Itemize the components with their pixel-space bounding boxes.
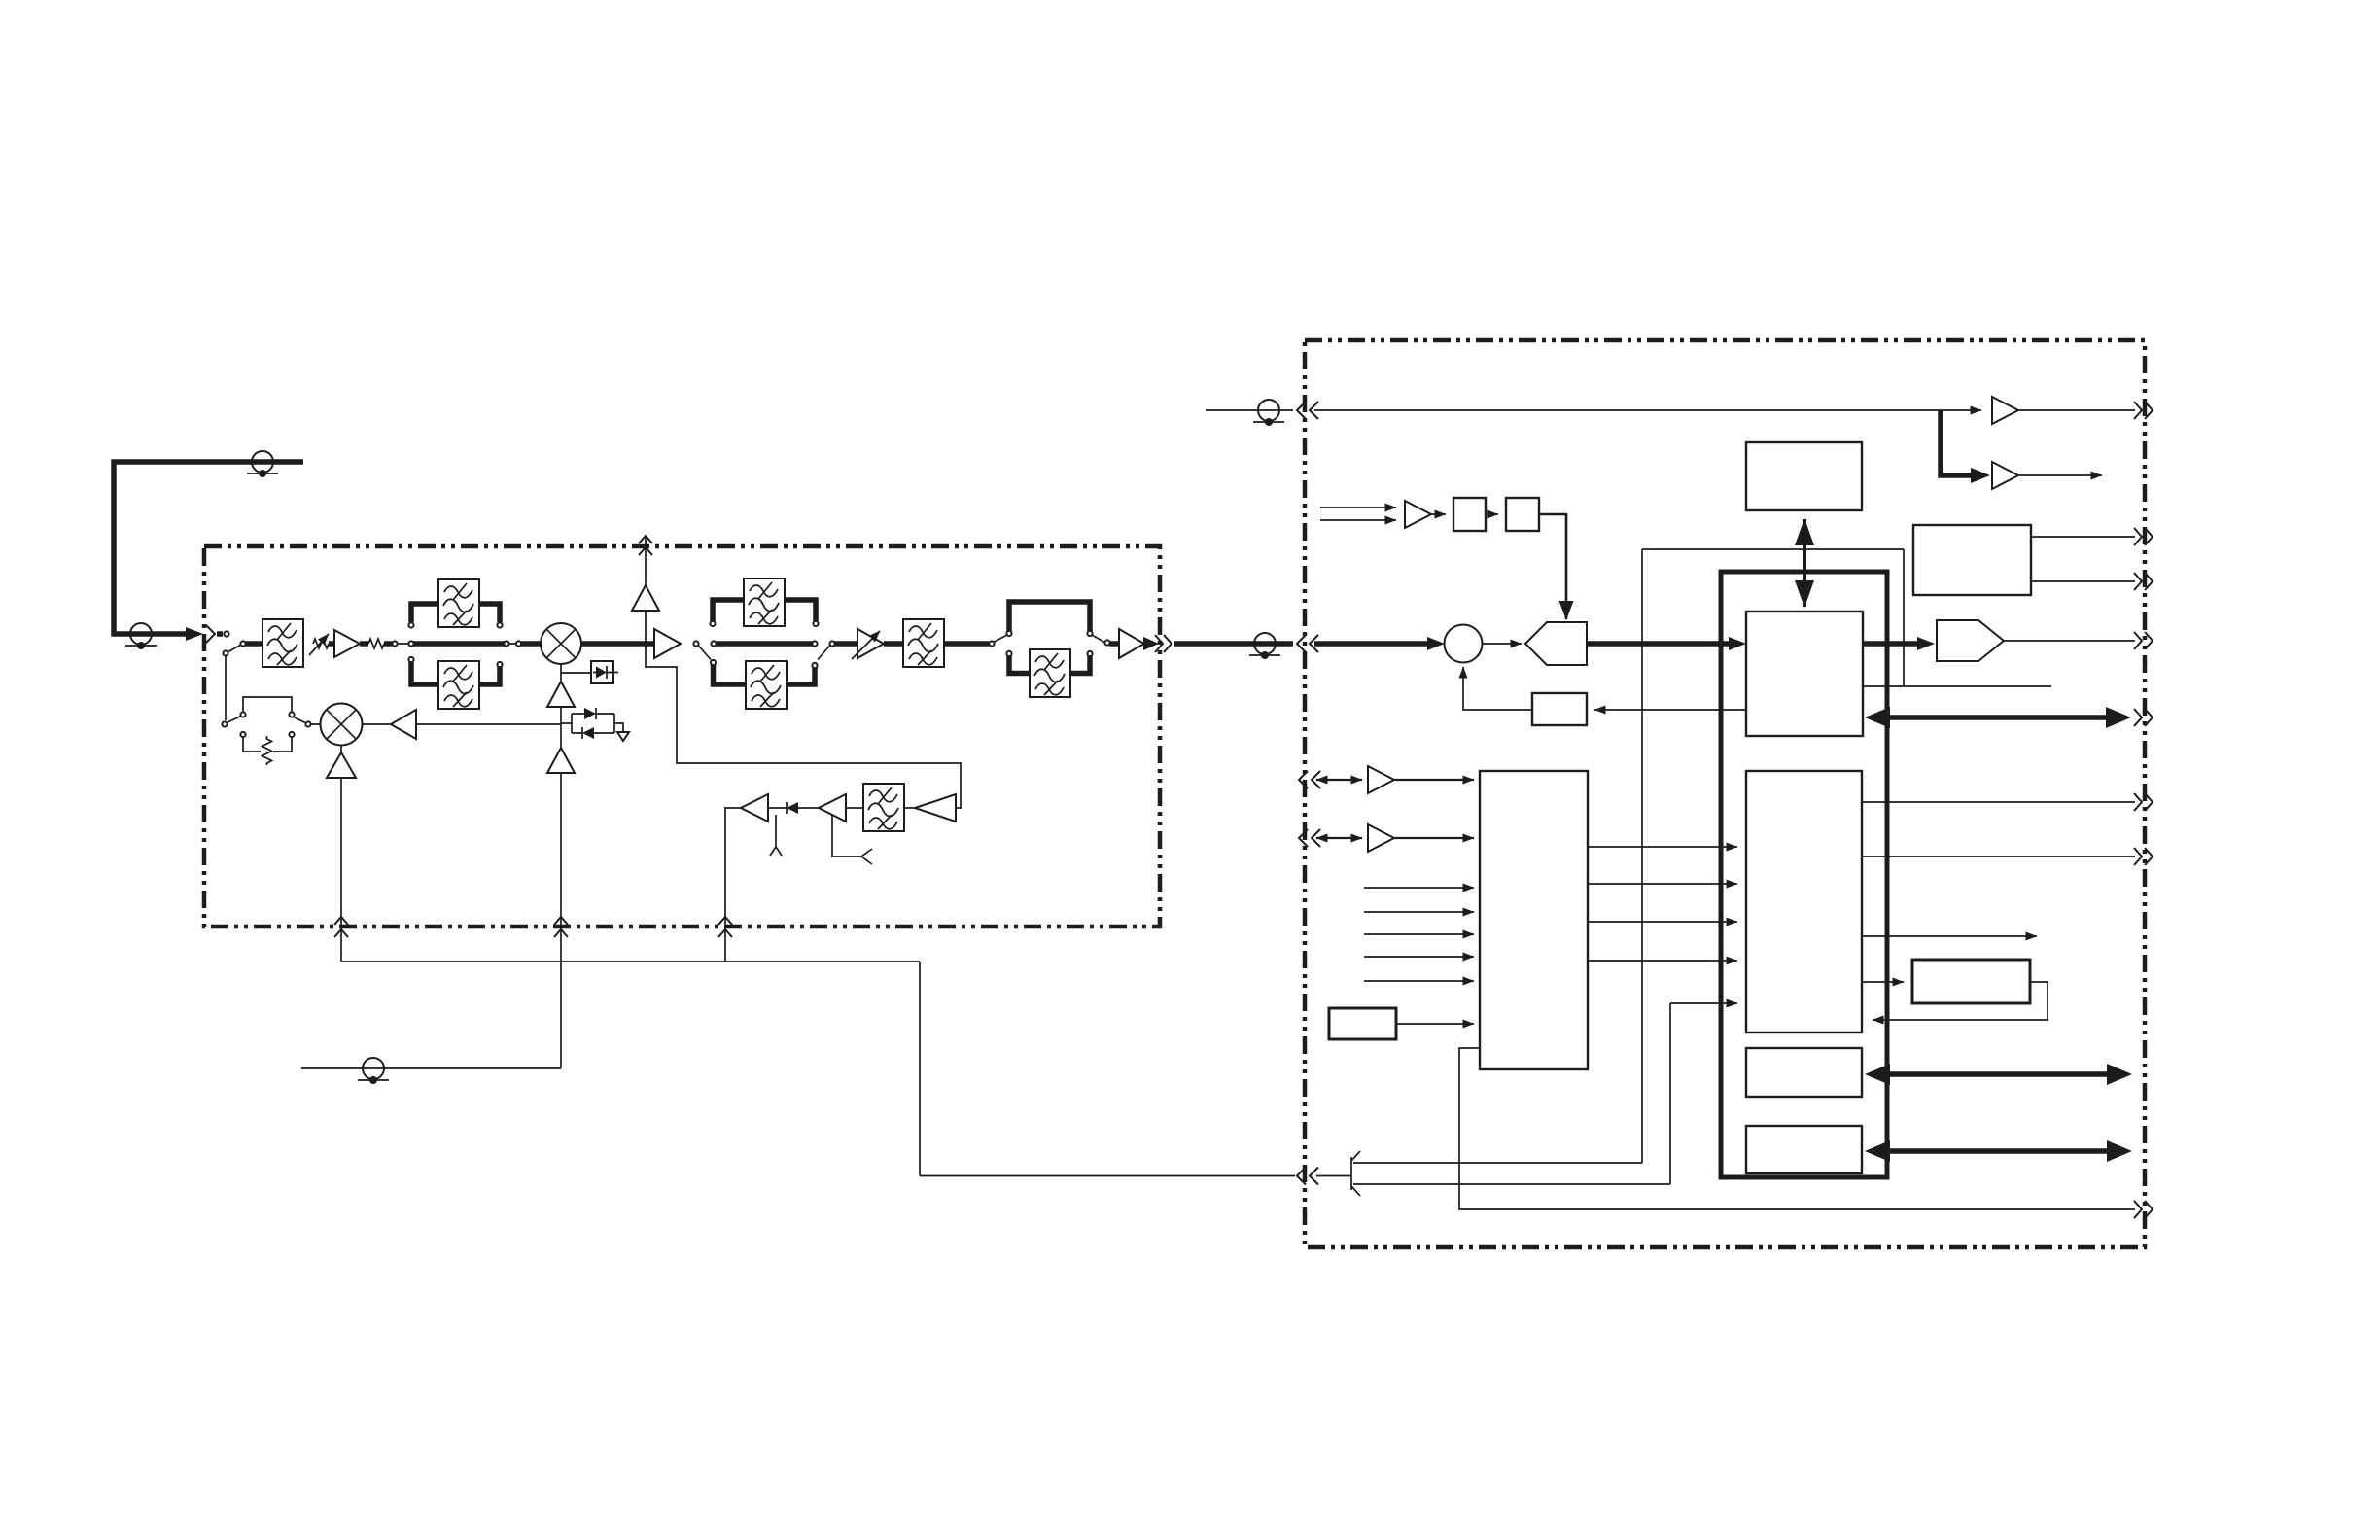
bypass top wire bank 3 [1009,602,1090,631]
bidirectional wire U2 to IC1 [1802,519,1806,607]
input stub wire [217,631,223,637]
junction wire to TX mixer amp [416,723,561,725]
amplifier A10 (to 2nd RX) [632,585,659,611]
detector diode D1 wire [561,672,591,674]
filter FL4 [744,578,785,626]
DSP bottom output wire [1459,1048,2135,1209]
connector J2 on antenna wire [247,451,278,477]
chevron into left border [206,625,215,643]
through path thick wire [413,641,505,647]
feedback wire U5 to summing node [1463,667,1532,710]
RX split vertical wire and up amp [645,611,647,644]
chevrons through bottom border (LO line) [554,917,568,937]
amplifier A17 [741,794,768,822]
U8 to DSP wire [1396,1023,1474,1025]
wire MIX1 to A2 [581,641,654,647]
thick wire to summing node [1314,641,1427,647]
amplifier A8 [1368,824,1394,852]
antenna feed thick wire [114,462,303,634]
audio line 1 chevrons [1299,771,1320,788]
switch S3 arms [698,646,830,660]
A5 output wire [2018,409,2135,411]
connector J4 [1253,400,1284,426]
switch S1 contacts [228,645,241,652]
mixer MIX1 [541,623,581,664]
variable gain amplifier A3 [857,629,884,658]
bus wire 1 [1353,549,1904,1163]
band data wire from IC1 [1863,685,2051,687]
filter bank 2 top bypass wire [713,600,816,621]
MOD input wire with connector J5 [301,1067,561,1069]
wire U4 to P1 top [1539,514,1566,619]
wire to variable amp A3 [834,641,857,647]
main/control unit dash-dot border (right block) [1305,340,2145,1247]
amplifier A1 [334,630,360,657]
control input stubs to DSP [1364,887,1474,889]
top line wire across block [1314,409,1981,411]
S5 contacts [222,712,310,737]
filter FL7 [863,784,904,831]
MIX1 LO wire [560,664,562,681]
divider block U4 [1506,498,1539,531]
wire FL6 to S4 [944,641,989,647]
TX sample tap wire [646,644,961,808]
box U9 [1912,960,2030,1003]
filter FL8 [1030,649,1070,697]
switch S2 arms [397,643,516,645]
audio line 2 chevrons [1299,829,1320,847]
IC4 small block [1746,1126,1862,1173]
DSP box U7 [1480,771,1588,1069]
box U2 (ref osc) [1746,442,1862,510]
control fork stub B [832,815,872,864]
IC2 block (logic) [1746,771,1862,1032]
IC2 output wire y963 [1862,935,2037,937]
chevrons through bottom border (MIX2 LO) [334,917,348,937]
TX return chain amp A15 [915,794,956,822]
P2 output wire [2004,640,2135,642]
switch S4 contacts [989,631,1109,656]
amplifier A5 [1992,397,2018,424]
audio line 1 wire [1316,779,1362,781]
amplifier A13 (TX mod amp) [391,710,416,739]
divider block U3 [1453,498,1486,531]
amplifier A6 [1992,462,2018,489]
inter-block thick wire [1174,641,1293,647]
connector J1 on RF input wire [125,623,157,649]
exit wire with arrowhead [1144,641,1149,647]
A7 to DSP wire [1394,779,1474,781]
diode D4 [798,807,819,809]
feedback block U5 [1532,693,1587,725]
entry chevrons on right block border [1297,635,1318,652]
detector diode D1 [591,661,618,683]
filter FL5 [746,661,787,709]
arrowhead into RF unit [186,627,203,641]
IC2 to U9 wire [1862,981,1904,983]
filter FL6 [903,619,944,667]
small box U8 [1329,1008,1396,1039]
ground symbol [617,732,629,741]
IC1 block (RF front) [1746,612,1863,736]
switch S3 contacts [693,621,834,668]
bold IC frame [1721,572,1887,1177]
summing node N1 [1445,625,1483,663]
switch S2 contacts [392,622,521,667]
TX attenuator switch S5 wiring [227,697,321,752]
MIX2 LO amp A14 [340,746,342,753]
IC2 output wire y825 [1862,801,2135,803]
filter bank 2 bottom bypass wire [714,665,816,684]
bus wire 2 [1353,1003,1670,1184]
DSP output wires to IC2 [1588,846,1737,848]
bidirectional thick data wire y1105 [1872,1071,2119,1077]
audio line 2 wire [1316,837,1362,839]
A8 to DSP wire [1394,837,1474,839]
filter FL2 [438,579,479,627]
reference clock chain input arrows [1320,507,1396,508]
amplifier A2 [654,629,681,658]
pentagon P1 [1525,622,1587,665]
feedback wire from IC1 to U5 [1594,709,1746,711]
mixer MIX2 [321,704,363,746]
exit chevrons on left block border [1155,635,1172,652]
control fork stub A [770,815,782,856]
TX return wire to border [725,808,741,962]
thick branch wire to A6 [1941,410,1974,475]
memory box U6 [1913,525,2031,595]
bottom path wire bank 3 [1009,656,1090,674]
U9 feedback wire [1872,982,2047,1020]
amplifier A16 [819,794,846,822]
filter bank 1 top bypass wire [411,604,500,622]
LO buffer amp A11 [547,682,575,707]
LO buffer amp A12 [547,748,575,773]
thick wire IC1 to P2 [1863,641,1917,647]
A6 output wire [2018,474,2102,476]
filter FL3 [438,661,479,709]
IC3 small block [1746,1048,1862,1097]
wire into mixer MIX1 [521,641,541,647]
filter bank 1 bottom bypass wire [411,662,500,684]
bidirectional thick data wire y738 [1873,715,2119,720]
chevrons through bottom border (TX return) [718,917,732,937]
bidirectional thick data wire y1184 [1872,1148,2119,1154]
IC2 output wire y881 [1862,856,2135,857]
long wire from RF unit to bus bracket [342,962,1295,1176]
amplifier A4 [1119,629,1144,658]
chevrons on border (bus line) [1297,1168,1318,1185]
chevrons on border (top line) [1297,402,1318,419]
thick wire P1 to IC1 [1587,641,1729,647]
pad resistor R2 [262,736,272,765]
variable attenuator AT1 [313,639,329,648]
output chevrons y422 [2134,402,2152,419]
bus bracket [1316,1151,1360,1196]
amplifier A9 [1405,501,1431,528]
top thin line stub outside border [1206,409,1293,411]
wire to amp A4 [1109,641,1119,647]
wire to D/A pentagon [1483,643,1522,645]
pentagon P2 [1937,620,2004,661]
RF unit dash-dot border (left block) [204,546,1160,927]
wire: RX chain to FL1 [245,641,262,647]
wire: S1 common vertical to TX switch [225,655,227,720]
amplifier A7 [1368,766,1394,793]
U6 output wires [2031,536,2135,538]
connector J3 [1249,633,1280,659]
filter FL1 [262,619,303,667]
switch S4 arm [994,635,1104,643]
bus wire vertical right [1903,549,1905,686]
resistor R1 [368,639,384,648]
through thick wire bank 2 [716,641,813,647]
chevrons through top border [639,536,652,555]
limiter diode pair D2/D3 [561,714,623,733]
